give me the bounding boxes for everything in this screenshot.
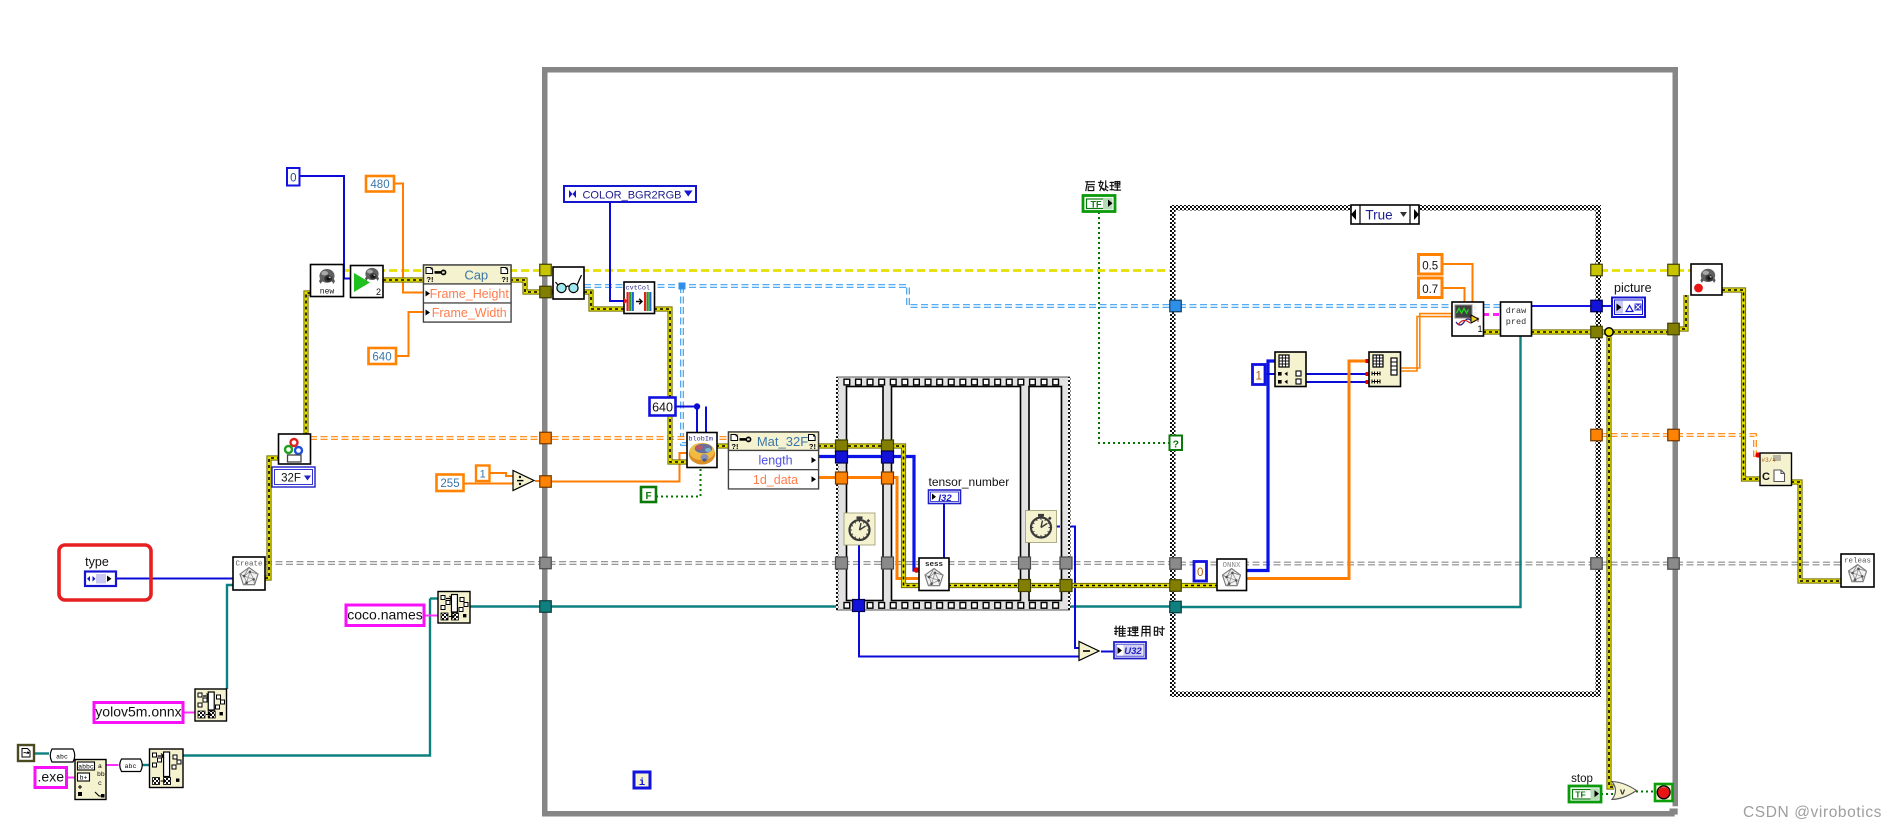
svg-text:cvtCol: cvtCol: [626, 285, 650, 293]
svg-text:abbc: abbc: [78, 764, 94, 771]
svg-text:.exe: .exe: [38, 769, 65, 785]
svg-text:?!: ?!: [426, 275, 433, 284]
svg-text:?!: ?!: [809, 442, 816, 451]
svg-text:True: True: [1365, 208, 1392, 223]
svg-text:CSDN @virobotics: CSDN @virobotics: [1743, 804, 1882, 821]
svg-text:U32: U32: [1124, 646, 1142, 657]
svg-text:COLOR_BGR2RGB: COLOR_BGR2RGB: [582, 190, 681, 202]
svg-text:1d_data: 1d_data: [753, 473, 798, 487]
svg-text:0: 0: [1197, 567, 1203, 579]
svg-text:i: i: [639, 777, 645, 789]
svg-text:c: c: [98, 780, 102, 787]
svg-text:0.7: 0.7: [1422, 284, 1438, 296]
svg-text:abc: abc: [125, 763, 137, 770]
svg-text:I32: I32: [938, 493, 952, 504]
svg-text:C: C: [1762, 471, 1770, 483]
svg-text:v: v: [1620, 787, 1626, 798]
svg-text:a: a: [98, 763, 102, 770]
svg-text:Mat_32F: Mat_32F: [757, 434, 808, 449]
svg-text:stop: stop: [1571, 773, 1593, 785]
svg-text:640: 640: [372, 352, 391, 364]
svg-text:Frame_Height: Frame_Height: [430, 287, 510, 301]
svg-text:TF: TF: [1575, 790, 1585, 800]
svg-text:length: length: [758, 454, 792, 468]
svg-text:new: new: [320, 288, 335, 297]
svg-text:32F: 32F: [281, 473, 301, 485]
svg-text:coco.names: coco.names: [347, 607, 422, 623]
svg-text:2: 2: [376, 287, 381, 297]
svg-text:255: 255: [440, 478, 459, 490]
svg-text:tensor_number: tensor_number: [929, 475, 1010, 489]
svg-text:yolov5m.onnx: yolov5m.onnx: [95, 704, 181, 720]
svg-text:480: 480: [370, 179, 389, 191]
svg-text:pred: pred: [1506, 317, 1526, 327]
svg-text:640: 640: [652, 401, 673, 415]
svg-text:Frame_Width: Frame_Width: [432, 306, 507, 320]
svg-text:b+: b+: [80, 775, 88, 782]
svg-text:?: ?: [1173, 439, 1179, 451]
svg-text:TF: TF: [1091, 200, 1102, 210]
svg-text:picture: picture: [1614, 281, 1652, 295]
svg-text:0.5: 0.5: [1422, 261, 1438, 273]
svg-text:?!: ?!: [501, 275, 508, 284]
svg-text:1: 1: [480, 469, 486, 481]
svg-text:F: F: [645, 491, 651, 502]
svg-text:?!: ?!: [731, 442, 738, 451]
svg-text:blobIm: blobIm: [689, 436, 713, 444]
svg-text:sess: sess: [925, 561, 944, 569]
svg-text:draw: draw: [1506, 306, 1527, 316]
svg-text:abc: abc: [56, 754, 68, 761]
svg-text:0: 0: [290, 173, 296, 185]
svg-text:type: type: [85, 555, 109, 569]
svg-text:1: 1: [1477, 324, 1482, 335]
svg-text:bb: bb: [97, 771, 105, 778]
svg-text:Cap: Cap: [464, 268, 488, 283]
svg-text:1: 1: [1255, 371, 1261, 383]
